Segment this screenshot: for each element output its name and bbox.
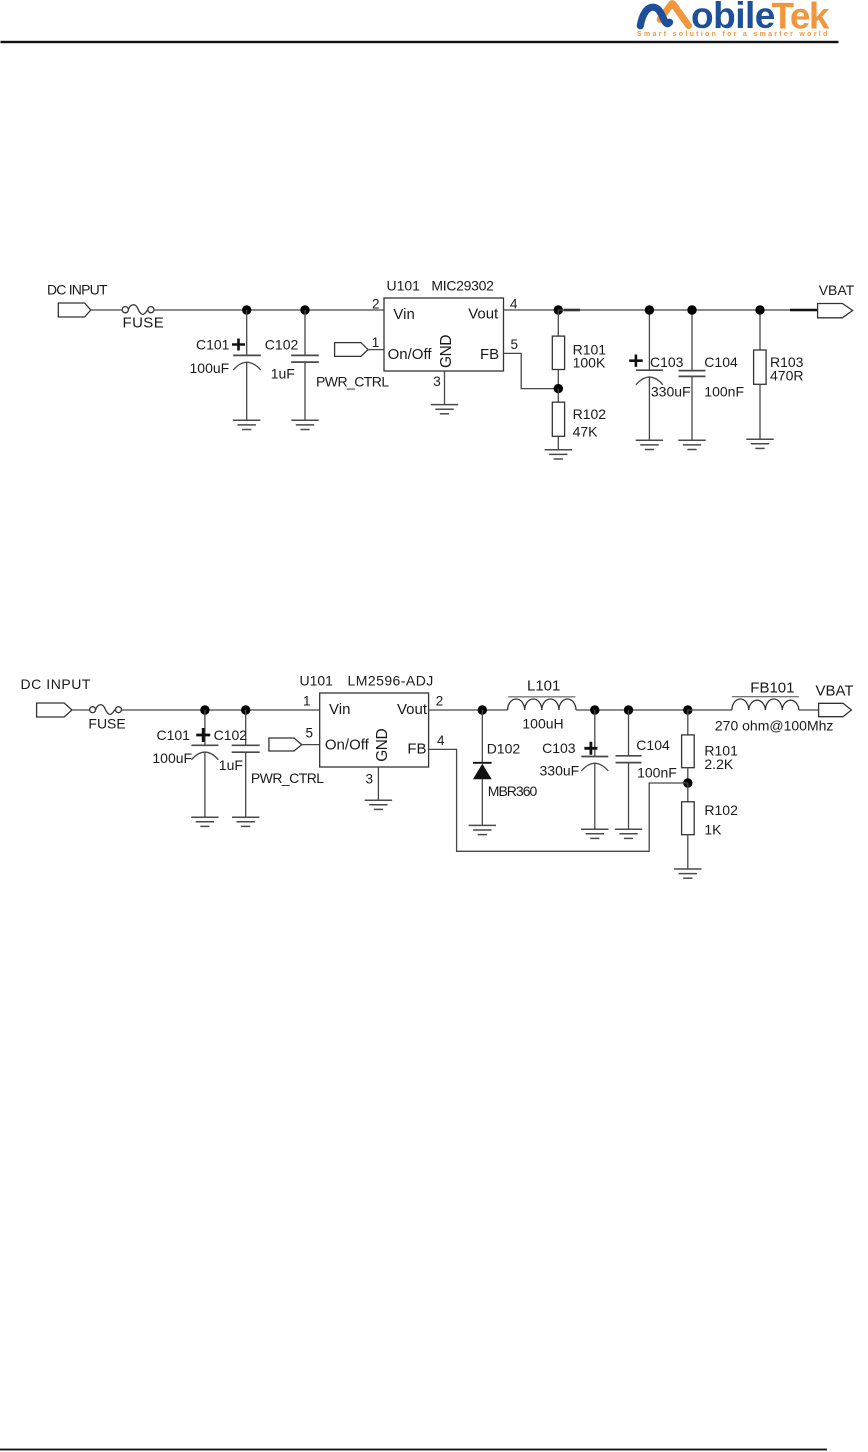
svg-text:C103: C103 (650, 354, 684, 370)
junction (242, 305, 251, 314)
svg-text:MIC29302: MIC29302 (431, 278, 494, 294)
svg-text:2: 2 (372, 297, 380, 312)
svg-text:1K: 1K (704, 822, 722, 838)
wire (368, 349, 384, 351)
wire (72, 709, 90, 711)
port VBAT (818, 304, 853, 318)
capacitor C101 (191, 710, 218, 817)
svg-text:R102: R102 (704, 802, 738, 818)
junction (645, 305, 654, 314)
fuse F1 (90, 705, 122, 715)
svg-text:C104: C104 (636, 737, 670, 753)
C103 plus sign (629, 355, 643, 367)
C101 plus sign (232, 339, 245, 351)
svg-text:100uH: 100uH (522, 716, 563, 732)
resistor R102 (682, 783, 695, 869)
junction (241, 705, 250, 714)
resistor R101 (552, 310, 564, 389)
svg-text:FB: FB (480, 346, 499, 363)
wire input rail (122, 709, 320, 711)
svg-text:GND: GND (374, 729, 391, 762)
wire output rail (576, 709, 688, 711)
IC U101 box (384, 298, 504, 371)
port VBAT (819, 703, 852, 716)
junction (624, 705, 633, 714)
C101 plus sign (196, 728, 210, 742)
svg-text:MBR360: MBR360 (488, 783, 538, 799)
port DC INPUT (58, 303, 91, 317)
svg-text:PWR_CTRL: PWR_CTRL (316, 374, 389, 390)
resistor R101 (682, 710, 695, 783)
svg-text:C102: C102 (214, 727, 248, 743)
wire VBAT thick (790, 309, 818, 312)
capacitor C104 (679, 310, 706, 440)
svg-text:L101: L101 (527, 677, 560, 694)
svg-text:C103: C103 (542, 740, 576, 756)
ground (581, 829, 608, 838)
wire pin3 to ground (377, 767, 379, 800)
svg-text:330uF: 330uF (651, 383, 691, 399)
junction (554, 305, 563, 314)
net stub (564, 309, 581, 312)
ground (431, 405, 458, 414)
IC U101 box (320, 693, 429, 767)
svg-text:5: 5 (305, 726, 313, 741)
ground (674, 869, 701, 878)
svg-text:Vin: Vin (329, 701, 350, 718)
svg-text:GND: GND (438, 335, 455, 368)
ground (365, 800, 392, 809)
svg-text:3: 3 (365, 771, 373, 786)
svg-text:U101: U101 (300, 673, 334, 689)
svg-text:FB101: FB101 (750, 680, 794, 697)
wire (302, 744, 320, 746)
junction (683, 705, 692, 714)
svg-text:1: 1 (372, 335, 380, 350)
ground (232, 817, 259, 826)
wire input rail (154, 309, 384, 311)
svg-text:FUSE: FUSE (123, 315, 165, 332)
svg-text:47K: 47K (573, 423, 599, 439)
junction (300, 305, 309, 314)
svg-text:Vout: Vout (397, 701, 428, 718)
resistor R102 (552, 389, 564, 450)
capacitor C104 (616, 710, 642, 829)
junction (478, 705, 487, 714)
capacitor C103 (636, 310, 663, 440)
wire Vout (429, 709, 508, 711)
footer rule (0, 1449, 827, 1451)
capacitor C102 (291, 310, 319, 420)
wire (799, 709, 819, 711)
wire output rail (558, 309, 790, 311)
ground (191, 817, 218, 826)
svg-text:270 ohm@100Mhz: 270 ohm@100Mhz (715, 718, 834, 734)
ferrite bead FB101 (732, 697, 799, 710)
svg-text:VBAT: VBAT (816, 682, 854, 699)
svg-text:Vin: Vin (393, 306, 414, 323)
fuse F1 (122, 305, 154, 315)
svg-text:FUSE: FUSE (88, 716, 125, 732)
ground (291, 420, 318, 429)
svg-text:1uF: 1uF (271, 365, 295, 381)
svg-text:D102: D102 (487, 740, 521, 756)
svg-text:330uF: 330uF (540, 762, 580, 778)
junction (687, 305, 696, 314)
svg-text:3: 3 (433, 374, 441, 389)
svg-text:Vout: Vout (468, 306, 499, 323)
svg-text:C102: C102 (265, 337, 299, 353)
wire pin3 to ground (444, 371, 446, 404)
svg-text:DC INPUT: DC INPUT (47, 282, 108, 298)
logo MobileTek wave M blue hump (640, 7, 669, 26)
svg-text:U101: U101 (387, 278, 421, 294)
wire FB feedback (504, 353, 559, 388)
ground (233, 420, 260, 429)
ground (469, 825, 496, 834)
svg-text:1uF: 1uF (219, 757, 243, 773)
capacitor C101 (233, 310, 261, 420)
ground (678, 440, 705, 449)
ground (545, 450, 572, 459)
junction (590, 705, 599, 714)
svg-text:100nF: 100nF (637, 764, 677, 780)
wire (91, 309, 123, 311)
ground (636, 440, 663, 449)
svg-text:R102: R102 (573, 406, 607, 422)
svg-text:1: 1 (303, 694, 311, 709)
svg-text:C104: C104 (704, 354, 738, 370)
svg-text:100K: 100K (573, 354, 606, 370)
wire FB feedback (429, 749, 688, 851)
capacitor C102 (232, 710, 260, 817)
svg-text:470R: 470R (770, 367, 803, 383)
resistor R103 (754, 310, 767, 439)
junction (755, 305, 764, 314)
svg-text:100nF: 100nF (704, 383, 744, 399)
svg-text:DC INPUT: DC INPUT (21, 676, 92, 692)
capacitor C103 (581, 710, 608, 829)
svg-text:On/Off: On/Off (325, 736, 370, 753)
svg-text:C101: C101 (157, 727, 191, 743)
svg-text:C101: C101 (196, 337, 230, 353)
svg-text:Smart solution for a smarter w: Smart solution for a smarter world (637, 31, 830, 38)
svg-text:4: 4 (437, 733, 445, 748)
ground (746, 439, 773, 448)
header rule (1, 41, 839, 43)
svg-text:VBAT: VBAT (819, 282, 855, 298)
ground (615, 829, 642, 838)
junction (683, 778, 692, 787)
C103 plus sign (584, 742, 597, 755)
svg-text:5: 5 (511, 337, 519, 352)
svg-text:FB: FB (407, 740, 426, 757)
port PWR_CTRL (335, 343, 368, 357)
junction (554, 384, 563, 393)
wire Vout (504, 309, 559, 311)
port PWR_CTRL (269, 738, 302, 751)
inductor L101 (508, 697, 576, 710)
wire to FB101 (688, 709, 732, 711)
port DC INPUT (37, 703, 72, 717)
svg-text:2: 2 (436, 694, 444, 709)
logo MobileTek orange mountain (660, 4, 689, 26)
svg-text:100uF: 100uF (152, 750, 192, 766)
svg-text:PWR_CTRL: PWR_CTRL (251, 770, 324, 786)
diode D102 MBR360 (473, 710, 492, 825)
svg-text:LM2596-ADJ: LM2596-ADJ (348, 673, 434, 689)
svg-text:On/Off: On/Off (388, 346, 433, 363)
svg-text:2.2K: 2.2K (704, 756, 733, 772)
junction (200, 705, 209, 714)
svg-text:100uF: 100uF (190, 360, 230, 376)
